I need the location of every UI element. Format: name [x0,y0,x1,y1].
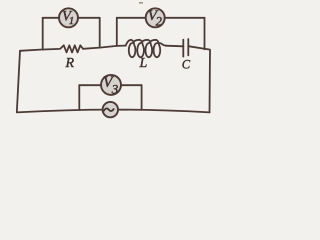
svg-text:L: L [139,56,148,71]
svg-text:3: 3 [111,82,119,97]
svg-text:C: C [182,58,191,72]
svg-text:R: R [65,56,75,71]
svg-text:2: 2 [156,15,162,29]
svg-text:1: 1 [69,15,75,27]
